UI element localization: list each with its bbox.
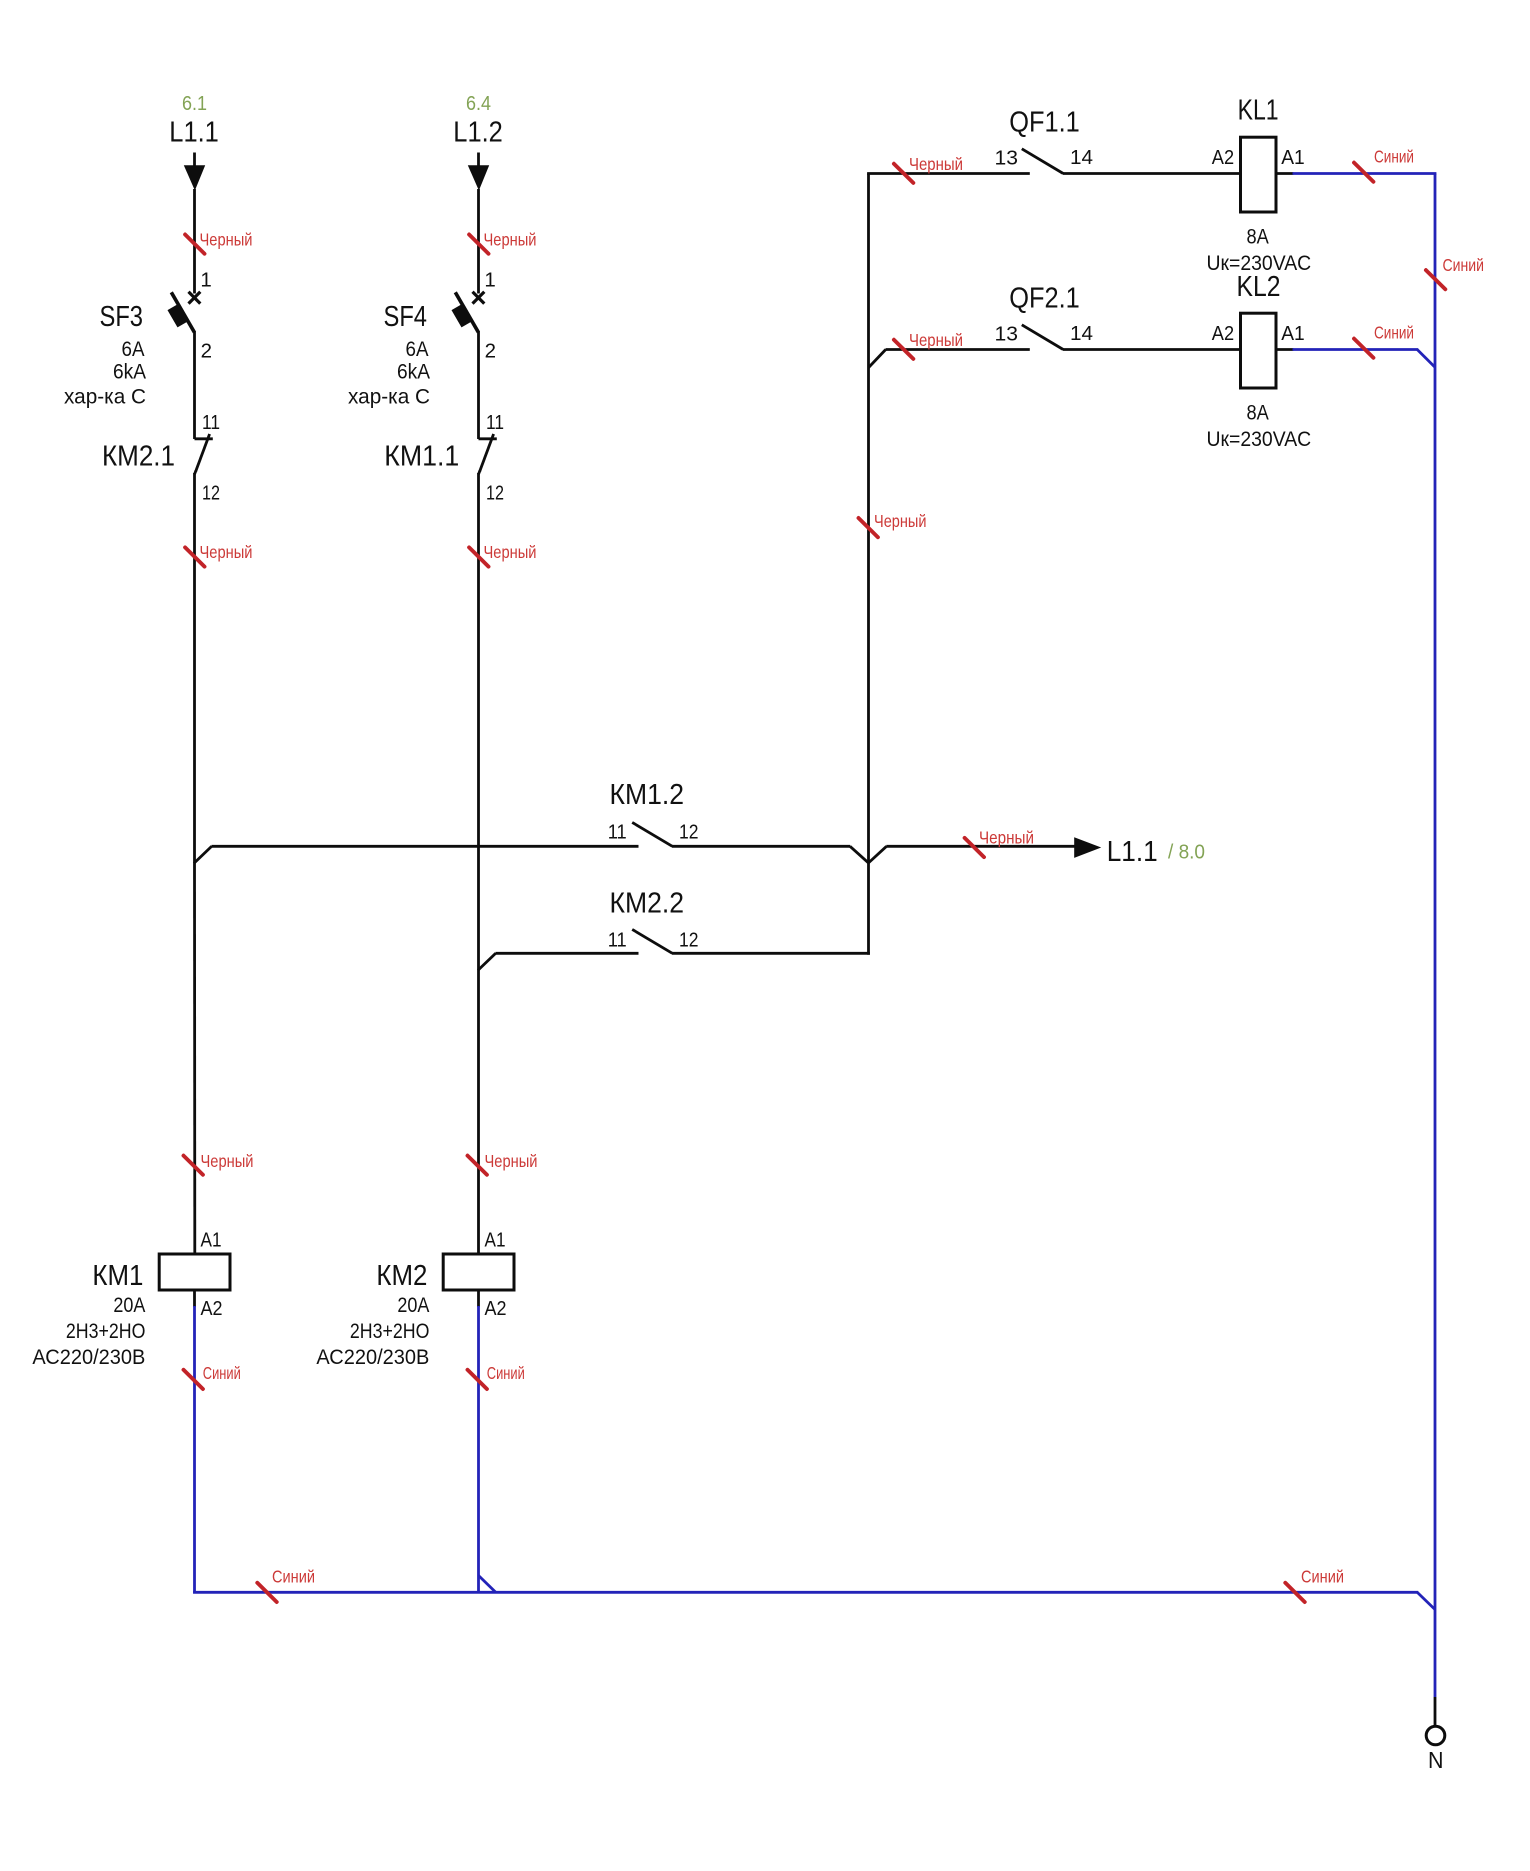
svg-text:QF2.1: QF2.1 — [1009, 283, 1080, 315]
svg-text:АС220/230В: АС220/230В — [32, 1345, 145, 1369]
svg-text:QF1.1: QF1.1 — [1009, 107, 1080, 139]
svg-text:A1: A1 — [485, 1228, 506, 1251]
svg-text:N: N — [1428, 1747, 1444, 1773]
svg-text:L1.1: L1.1 — [169, 116, 219, 148]
svg-text:12: 12 — [202, 482, 220, 505]
svg-text:КМ1.1: КМ1.1 — [384, 441, 459, 473]
svg-text:Черный: Черный — [201, 1151, 254, 1171]
svg-text:8A: 8A — [1247, 401, 1270, 425]
svg-text:2: 2 — [201, 339, 212, 362]
svg-text:Черный: Черный — [485, 1151, 538, 1171]
svg-text:11: 11 — [608, 821, 627, 844]
svg-text:Синий: Синий — [203, 1363, 241, 1383]
svg-text:Черный: Черный — [484, 229, 537, 249]
svg-text:13: 13 — [995, 146, 1019, 169]
svg-text:6.1: 6.1 — [182, 92, 207, 115]
svg-text:L1.1: L1.1 — [1107, 836, 1158, 868]
svg-text:A2: A2 — [485, 1297, 507, 1320]
svg-text:13: 13 — [995, 322, 1019, 345]
svg-text:11: 11 — [486, 411, 504, 434]
svg-text:A2: A2 — [201, 1297, 223, 1320]
svg-text:20A: 20A — [397, 1293, 430, 1317]
svg-text:хар-ка C: хар-ка C — [64, 384, 146, 408]
svg-text:A2: A2 — [1212, 146, 1234, 169]
svg-text:6kA: 6kA — [113, 360, 147, 384]
svg-text:Синий: Синий — [1374, 322, 1414, 342]
svg-text:1: 1 — [484, 268, 495, 291]
svg-text:A2: A2 — [1212, 322, 1234, 345]
svg-text:14: 14 — [1070, 322, 1093, 345]
svg-text:A1: A1 — [1281, 146, 1305, 169]
svg-text:12: 12 — [486, 482, 504, 505]
svg-text:АС220/230В: АС220/230В — [316, 1345, 429, 1369]
svg-text:Синий: Синий — [1443, 255, 1485, 275]
svg-text:2: 2 — [485, 339, 496, 362]
svg-text:Черный: Черный — [484, 542, 537, 562]
svg-text:Черный: Черный — [200, 542, 253, 562]
svg-text:КМ1.2: КМ1.2 — [610, 779, 685, 811]
svg-text:хар-ка C: хар-ка C — [348, 384, 430, 408]
svg-text:A1: A1 — [1281, 322, 1305, 345]
svg-text:КМ1: КМ1 — [92, 1260, 143, 1292]
svg-text:6A: 6A — [122, 337, 146, 361]
svg-text:/ 8.0: / 8.0 — [1168, 841, 1205, 864]
svg-text:SF4: SF4 — [384, 301, 428, 333]
svg-text:12: 12 — [679, 821, 699, 844]
svg-text:Синий: Синий — [272, 1567, 315, 1587]
svg-text:11: 11 — [608, 928, 627, 951]
svg-text:Синий: Синий — [1301, 1567, 1344, 1587]
svg-text:12: 12 — [679, 928, 699, 951]
svg-text:КМ2: КМ2 — [376, 1260, 427, 1292]
svg-text:8A: 8A — [1247, 225, 1270, 249]
svg-text:KL1: KL1 — [1238, 95, 1279, 127]
svg-text:2Н3+2НО: 2Н3+2НО — [66, 1319, 146, 1343]
svg-text:L1.2: L1.2 — [453, 116, 503, 148]
svg-text:SF3: SF3 — [100, 301, 144, 333]
svg-text:6kA: 6kA — [397, 360, 431, 384]
svg-text:Синий: Синий — [487, 1363, 525, 1383]
svg-text:Черный: Черный — [200, 229, 253, 249]
svg-text:КМ2.2: КМ2.2 — [610, 888, 685, 920]
svg-text:11: 11 — [202, 411, 220, 434]
svg-text:6.4: 6.4 — [466, 92, 491, 115]
svg-text:A1: A1 — [201, 1228, 222, 1251]
svg-text:1: 1 — [200, 268, 211, 291]
svg-text:KL2: KL2 — [1237, 271, 1281, 303]
svg-text:Черный: Черный — [874, 511, 927, 531]
svg-text:КМ2.1: КМ2.1 — [102, 441, 175, 473]
svg-text:Uк=230VAC: Uк=230VAC — [1207, 427, 1312, 451]
svg-text:6A: 6A — [406, 337, 430, 361]
svg-text:Черный: Черный — [979, 827, 1034, 847]
svg-text:Черный: Черный — [909, 330, 963, 350]
svg-text:20A: 20A — [113, 1293, 146, 1317]
svg-text:Черный: Черный — [909, 154, 963, 174]
svg-text:2Н3+2НО: 2Н3+2НО — [350, 1319, 430, 1343]
svg-text:14: 14 — [1070, 146, 1093, 169]
svg-text:Синий: Синий — [1374, 146, 1414, 166]
